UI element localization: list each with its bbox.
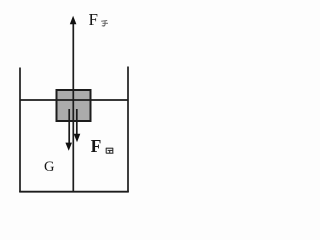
container left wall (19, 68, 21, 193)
gravity arrow G shaft (down) (68, 109, 70, 144)
container right wall (127, 67, 129, 193)
container bottom (19, 191, 129, 193)
svg-text:F: F (91, 136, 102, 156)
subscript 浮 (tiny CJK mimic) (101, 21, 108, 27)
svg-text:F: F (89, 10, 98, 29)
arrowhead of F压 (74, 134, 81, 143)
center axis line (F浮 arrow shaft continuing to container bottom) (72, 23, 74, 192)
svg-text:G: G (44, 159, 55, 175)
subscript 压 (tiny CJK mimic) (106, 148, 114, 153)
water surface line (20, 99, 128, 101)
pressure force arrow shaft (down, shorter) (76, 109, 78, 135)
block (floating object) (57, 90, 91, 121)
arrowhead of G (65, 143, 72, 151)
arrowhead of buoyancy force F浮 (up) (70, 16, 77, 24)
